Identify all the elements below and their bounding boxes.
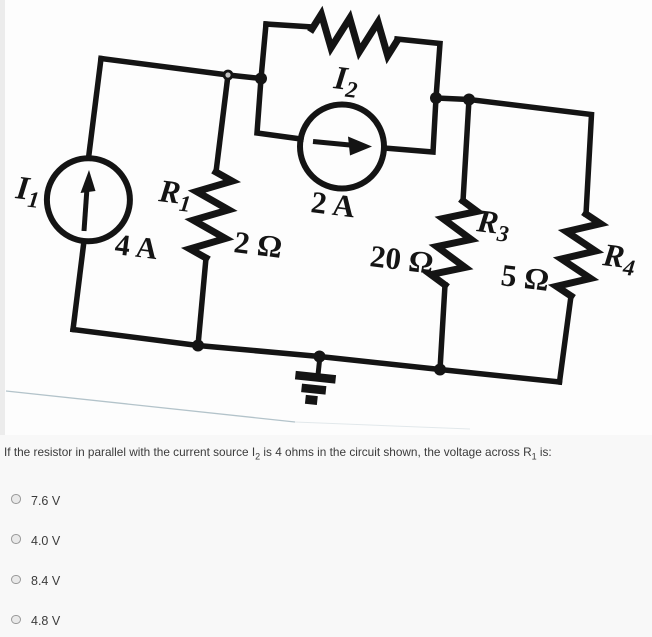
- wire left vertical to I1: [89, 59, 102, 159]
- option 3: [11, 575, 21, 585]
- svg-text:I1: I1: [13, 170, 43, 213]
- option 2: [11, 534, 21, 544]
- svg-text:R4: R4: [600, 236, 639, 281]
- wire R1 bottom lead: [198, 258, 206, 346]
- node K (bottom, R3): [434, 364, 446, 376]
- wire I1 bottom: [73, 241, 84, 330]
- node dots: [192, 71, 475, 376]
- scan left edge: [0, 0, 5, 435]
- wire node H to node J: [436, 98, 469, 100]
- svg-text:5 Ω: 5 Ω: [499, 257, 551, 298]
- wire top-right to R4: [469, 100, 592, 215]
- node J: [463, 94, 475, 106]
- node N (bottom, ground): [314, 351, 326, 363]
- resistor R1: [190, 172, 232, 258]
- current source I1: [47, 158, 130, 241]
- svg-text:20 Ω: 20 Ω: [368, 238, 435, 280]
- current source I2: [300, 105, 384, 189]
- svg-text:2 Ω: 2 Ω: [232, 224, 284, 265]
- wire bottom rail: [73, 330, 560, 383]
- resistor R4: [557, 214, 601, 296]
- node C (I2 loop left): [255, 73, 267, 85]
- node D (bottom, R1): [192, 340, 204, 352]
- svg-text:2 A: 2 A: [309, 184, 357, 224]
- wire R3 top lead: [463, 100, 469, 202]
- option 4: [11, 615, 21, 625]
- scan page edge line: [6, 391, 295, 422]
- wire R4 bottom lead: [560, 296, 572, 382]
- I1 arrow: [81, 170, 96, 231]
- wire I2-loop left side: [257, 24, 301, 139]
- node B (R1 top tap): [224, 71, 232, 79]
- svg-text:R3: R3: [474, 202, 513, 247]
- option 1: [11, 494, 21, 504]
- wire R1 top lead: [216, 75, 228, 172]
- wire I2 right side: [384, 98, 436, 152]
- wire top loop right lead: [397, 39, 440, 98]
- I2 arrow: [313, 137, 372, 156]
- svg-text:I2: I2: [331, 60, 361, 103]
- wire R3 bottom lead: [440, 285, 445, 370]
- wire top-left horizontal: [101, 59, 261, 79]
- wire top loop left lead: [266, 24, 312, 27]
- resistor R3: [431, 201, 477, 285]
- question text: [4, 447, 552, 461]
- node H: [430, 92, 442, 104]
- ground: [293, 354, 338, 402]
- resistor R2 (parallel with I2): [312, 14, 397, 56]
- svg-text:4 A: 4 A: [113, 228, 160, 266]
- svg-text:R1: R1: [156, 172, 195, 217]
